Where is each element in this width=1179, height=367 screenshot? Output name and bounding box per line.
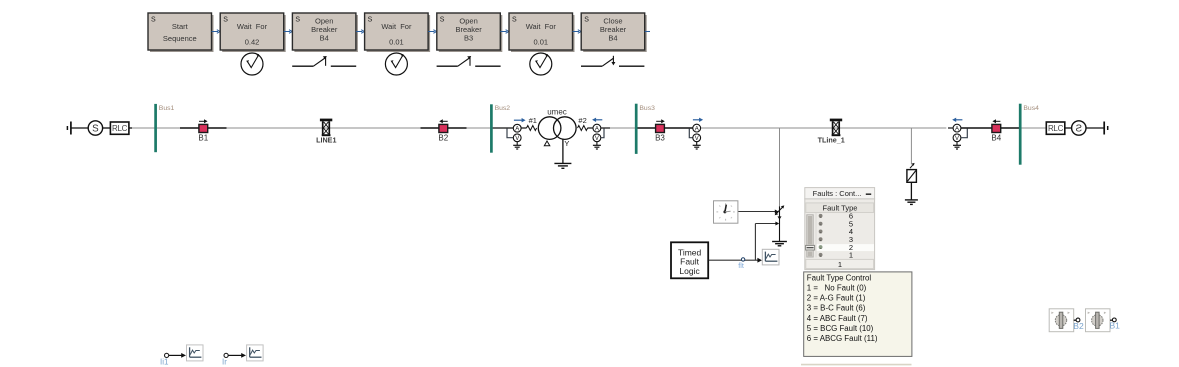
wire fault control to fault	[755, 222, 779, 226]
wire junction up to fault control	[754, 224, 756, 261]
wire timer to fault	[738, 210, 779, 214]
dial row 5	[819, 219, 853, 228]
svg-text:A: A	[955, 127, 959, 133]
ground under voltmeter (after B3)	[693, 142, 701, 149]
sequencer block Start Sequence	[148, 13, 214, 52]
svg-text:Bus2: Bus2	[495, 105, 511, 112]
wire node Ir to monitor	[228, 353, 246, 358]
wire fault branch from main bus	[779, 129, 781, 207]
svg-text:S: S	[223, 17, 228, 24]
source right	[1072, 121, 1086, 135]
ammeter A (transformer LV side)	[593, 124, 601, 132]
svg-text:flt: flt	[738, 261, 744, 270]
svg-text:0.42: 0.42	[245, 38, 260, 47]
wire ground to source	[72, 127, 89, 129]
wire source to ground right	[1086, 127, 1104, 129]
svg-text:Bus3: Bus3	[639, 105, 655, 112]
transformer umec label	[547, 107, 567, 116]
switch icon under Open Breaker B3	[437, 56, 501, 66]
selected row highlight	[817, 244, 875, 251]
svg-text:V: V	[595, 136, 599, 142]
sequencer block Open Breaker B3	[437, 13, 503, 52]
svg-text:5 = BCG Fault (10): 5 = BCG Fault (10)	[807, 324, 874, 333]
ammeter A (transformer HV side)	[513, 124, 521, 132]
wire TFL to monitor	[709, 259, 758, 261]
svg-text:S: S	[584, 17, 589, 24]
svg-text:6 = ABCG Fault (11): 6 = ABCG Fault (11)	[807, 334, 878, 343]
voltmeter tap bracket right	[601, 129, 604, 138]
svg-text:Ii1: Ii1	[160, 358, 169, 367]
svg-text:0.01: 0.01	[389, 38, 404, 47]
wire winding 2 to ammeter	[588, 127, 594, 129]
breaker B4	[991, 119, 1001, 142]
wire B4 to Bus4	[1001, 127, 1022, 129]
dial slider	[806, 215, 815, 257]
svg-text:B1: B1	[198, 134, 208, 143]
svg-text:Bus4: Bus4	[1023, 105, 1039, 112]
wire transformer neutral to ground	[562, 139, 564, 163]
breaker B2	[438, 119, 448, 142]
sequencer block Wait For 0.42	[220, 13, 286, 52]
wye symbol	[564, 139, 569, 148]
wire to breaker B1	[180, 127, 199, 129]
sequencer block Wait For 0.01 (second)	[509, 13, 575, 52]
svg-text:Ir: Ir	[222, 358, 227, 367]
fault switch phase B	[778, 216, 782, 241]
MAIN CIRCUIT	[67, 104, 1107, 205]
cropped element edge at bottom	[801, 364, 912, 366]
timer icon under Wait For 0.01 (second)	[530, 53, 552, 75]
node B2	[1073, 318, 1084, 331]
winding #1 label	[529, 116, 537, 125]
monitor block Ii1	[187, 345, 204, 361]
winding 2 coil	[578, 126, 588, 131]
svg-text:Sequence: Sequence	[163, 34, 197, 43]
voltmeter tap bracket left of transformer	[507, 129, 513, 138]
voltmeter V (transformer LV side)	[593, 134, 601, 142]
dial row 3	[819, 235, 853, 244]
breaker control B1	[1086, 309, 1111, 332]
sequencer block Open Breaker B4	[292, 13, 358, 52]
svg-text:Fault Type Control: Fault Type Control	[807, 273, 872, 282]
RLC impedance right	[1046, 122, 1065, 134]
ammeter A (after B3)	[693, 124, 701, 132]
wire after B1	[208, 127, 227, 129]
timer dial component	[714, 201, 738, 223]
svg-text:Y: Y	[564, 139, 569, 148]
wire B3 to ammeter	[664, 127, 692, 129]
svg-text:S: S	[92, 124, 99, 135]
signal arrow blue (P flow right)	[514, 118, 526, 122]
monitor block Ir	[247, 345, 264, 361]
node Ir	[222, 353, 228, 366]
wire Bus3 to B3	[638, 127, 656, 129]
control panel Faults title bar	[805, 188, 875, 199]
wire source to RLC	[103, 127, 111, 129]
svg-text:Wait For: Wait For	[381, 22, 412, 31]
svg-text:RLC: RLC	[112, 124, 128, 133]
svg-text:TLine_1: TLine_1	[818, 136, 845, 145]
winding 1 coil	[527, 126, 537, 131]
svg-text:1 = No Fault (0): 1 = No Fault (0)	[807, 284, 867, 293]
ground arrester	[905, 200, 918, 205]
source S left	[88, 121, 102, 135]
svg-text:A: A	[515, 127, 519, 133]
svg-text:V: V	[695, 136, 699, 142]
breaker B3	[655, 119, 665, 142]
surge arrester	[907, 170, 917, 183]
wire stub breaker control B2	[1074, 319, 1076, 321]
bus Bus2	[491, 104, 510, 152]
transformer winding circle 1	[538, 117, 561, 140]
ground under voltmeter (before B4)	[953, 142, 961, 149]
dial row 1	[819, 251, 853, 260]
ground left terminal	[67, 122, 71, 135]
svg-text:LINE1: LINE1	[316, 136, 336, 145]
voltmeter V (transformer HV side)	[513, 134, 521, 142]
voltmeter tap bracket (before B4)	[961, 129, 967, 138]
svg-text:3 = B-C Fault (6): 3 = B-C Fault (6)	[807, 304, 866, 313]
svg-text:Faults : Cont...: Faults : Cont...	[813, 189, 862, 198]
svg-text:S: S	[368, 17, 373, 24]
ground right terminal	[1104, 122, 1108, 135]
bus Bus1	[156, 104, 175, 152]
timer icon under Wait For 0.01 (first)	[385, 53, 407, 75]
svg-text:#1: #1	[529, 116, 537, 125]
signal arrow blue (before B4)	[952, 118, 962, 122]
sequencer block Wait For 0.01 (first)	[365, 13, 431, 52]
node B1	[1110, 318, 1121, 331]
svg-text:A: A	[695, 127, 699, 133]
control panel Faults body	[805, 199, 875, 270]
svg-text:B1: B1	[1110, 321, 1121, 331]
signal arrow blue (LV side, left)	[592, 118, 602, 122]
svg-text:umec: umec	[547, 107, 567, 116]
wire ammeter to B4	[948, 127, 992, 129]
BOTTOM ITEMS	[160, 309, 1120, 367]
wire RLC to source right	[1065, 127, 1072, 129]
voltmeter tap bracket (after B3)	[689, 129, 693, 138]
svg-text:Start: Start	[172, 22, 189, 31]
transmission line LINE1	[316, 119, 336, 145]
svg-text:1: 1	[849, 251, 853, 260]
bus Bus3	[636, 104, 655, 154]
SEQUENCER CHAIN	[148, 13, 650, 75]
svg-text:Wait For: Wait For	[237, 22, 268, 31]
wire arrester branch	[910, 129, 912, 165]
wire stub after last block	[645, 31, 650, 33]
close switch icon under Close Breaker B4	[581, 56, 644, 66]
wire Bus2 to ammeter	[493, 127, 514, 129]
voltmeter V (before B4)	[953, 134, 961, 142]
dial row 4	[819, 227, 853, 236]
svg-text:B4: B4	[991, 134, 1001, 143]
timer icon under Wait For 0.42	[241, 53, 263, 75]
voltmeter V (after B3)	[693, 134, 701, 142]
svg-text:#2: #2	[578, 116, 586, 125]
svg-text:A: A	[595, 127, 599, 133]
monitor block flt	[762, 249, 779, 265]
svg-text:4 = ABC Fault (7): 4 = ABC Fault (7)	[807, 314, 868, 323]
delta symbol	[544, 141, 550, 146]
svg-text:Bus1: Bus1	[159, 105, 175, 112]
RLC impedance left	[110, 122, 128, 134]
svg-text:S: S	[295, 17, 300, 24]
breaker B1	[198, 119, 208, 142]
ground under voltmeter HV	[513, 142, 521, 149]
svg-text:Logic: Logic	[679, 266, 700, 276]
winding #2 label	[578, 116, 586, 125]
transmission line TLine_1	[818, 119, 845, 145]
svg-text:B4: B4	[320, 34, 329, 43]
wire stub breaker control B1	[1110, 319, 1112, 321]
wire arrow seq 3-4	[356, 30, 365, 34]
svg-text:B3: B3	[464, 34, 473, 43]
wire arrow seq 5-6	[500, 30, 509, 34]
svg-text:B2: B2	[1073, 321, 1084, 331]
wire ammeter LV to Bus3	[601, 127, 610, 129]
wire arrow seq 1-2	[212, 30, 221, 34]
PANELS	[801, 188, 912, 365]
svg-text:S: S	[512, 17, 517, 24]
svg-text:1: 1	[838, 260, 842, 269]
node flt	[738, 258, 745, 270]
signal arrow blue (after B3)	[693, 118, 703, 122]
svg-text:RLC: RLC	[1048, 124, 1064, 133]
wire arrester to ground	[910, 182, 912, 200]
node Ii1	[160, 353, 169, 366]
wire arrow seq 4-5	[428, 30, 437, 34]
wire arrow seq 6-7	[573, 30, 582, 34]
arrester arrow	[910, 163, 915, 168]
dial row 6	[819, 212, 853, 221]
fault switch phase A	[775, 205, 785, 219]
svg-text:B2: B2	[438, 134, 448, 143]
svg-text:V: V	[515, 136, 519, 142]
svg-text:0.01: 0.01	[533, 38, 548, 47]
switch icon under Open Breaker B4	[292, 56, 356, 66]
bus Bus4	[1020, 104, 1039, 165]
svg-text:V: V	[955, 136, 959, 142]
dial row 2 selected	[819, 243, 853, 252]
svg-text:S: S	[151, 17, 156, 24]
svg-text:B4: B4	[608, 34, 617, 43]
annotation text box Fault Type Control	[804, 272, 912, 357]
breaker control B2	[1049, 309, 1074, 332]
ammeter A (before B4)	[953, 124, 961, 132]
arrow into fault monitor	[757, 258, 762, 263]
wire arrow seq 2-3	[284, 30, 293, 34]
svg-text:2 = A-G Fault (1): 2 = A-G Fault (1)	[807, 294, 866, 303]
svg-text:S: S	[440, 17, 445, 24]
wire RLC stub	[129, 127, 132, 129]
svg-text:S: S	[1075, 124, 1082, 135]
wire ammeter to winding 1	[521, 127, 526, 129]
ground under voltmeter LV	[593, 142, 601, 149]
FAULT SECTION	[671, 129, 787, 279]
Timed Fault Logic block	[671, 242, 708, 278]
dial output value	[806, 259, 874, 268]
ground transformer neutral	[554, 163, 571, 168]
wire to breaker B2	[421, 127, 440, 129]
transformer winding circle 2	[554, 117, 577, 140]
sequencer block Close Breaker B4	[581, 13, 647, 52]
wire after B2	[448, 127, 467, 129]
svg-text:Wait For: Wait For	[526, 22, 557, 31]
dial header Fault Type	[806, 203, 874, 213]
wire node Ii1 to monitor	[169, 353, 186, 358]
svg-text:B3: B3	[655, 134, 665, 143]
ground fault branch	[772, 242, 787, 246]
wire main bus gray segments	[132, 127, 1047, 129]
